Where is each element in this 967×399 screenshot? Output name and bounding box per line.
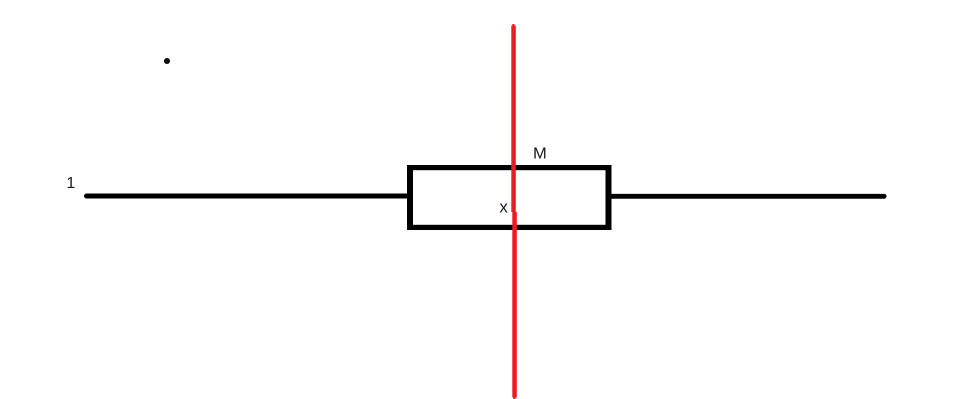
svg-text:M: M (533, 145, 547, 162)
svg-text:x: x (499, 198, 508, 217)
svg-text:1: 1 (66, 175, 75, 192)
